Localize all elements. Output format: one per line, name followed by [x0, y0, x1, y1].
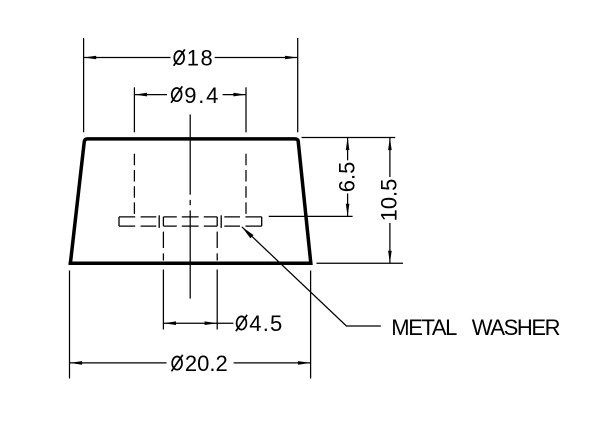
svg-text:WASHER: WASHER — [472, 315, 560, 340]
svg-text:10.5: 10.5 — [376, 179, 401, 222]
svg-text:METAL: METAL — [391, 315, 457, 340]
svg-text:18: 18 — [187, 46, 214, 71]
svg-text:20.2: 20.2 — [185, 351, 228, 376]
svg-text:4.5: 4.5 — [249, 311, 283, 336]
svg-text:6.5: 6.5 — [335, 162, 360, 193]
svg-text:9.4: 9.4 — [184, 83, 220, 108]
